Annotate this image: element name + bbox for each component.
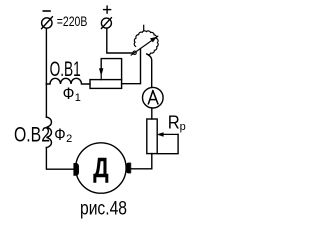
svg-text:=220В: =220В [57, 14, 88, 29]
field rheostat body [90, 80, 122, 89]
svg-text:2: 2 [66, 133, 72, 145]
wire: OB2 down and right to left brush [46, 148, 73, 170]
terminal XT2 (right, plus) [101, 6, 111, 28]
wire: junction down to OB2 coil [45, 84, 47, 117]
svg-text:Ф: Ф [63, 84, 75, 103]
svg-text:О.В1: О.В1 [50, 58, 81, 81]
wire: ammeter to Rp [151, 108, 153, 119]
starter arm arrowhead [150, 37, 156, 42]
inductor OB2 (series field winding, vertical) [46, 117, 51, 148]
inductor OB1 (shunt field winding, horizontal) [46, 78, 90, 84]
svg-text:Ф: Ф [54, 125, 65, 144]
ammeter label A [148, 91, 158, 104]
wire: plus terminal down and right to starter pivot [107, 28, 133, 53]
wire: Rp bottom down and left to right brush [131, 154, 152, 169]
starting rheostat (stud arc) [134, 31, 158, 55]
rheostat Rp body [147, 119, 157, 154]
field rheostat slider arrow (down onto body) [99, 69, 103, 76]
starter arc end to ammeter wire [147, 54, 152, 87]
svg-text:рис.48: рис.48 [80, 198, 127, 220]
wire: Rp slider loop down to body bottom corner [157, 134, 178, 153]
starter top stud lead [143, 25, 145, 30]
svg-text:О.В2: О.В2 [14, 124, 50, 147]
ammeter PA1 [143, 87, 164, 108]
terminal XT1 (left, minus) [42, 11, 53, 29]
svg-text:R: R [168, 113, 180, 133]
svg-text:Д: Д [94, 152, 109, 182]
wire: slider loop up and right to body right edge [101, 59, 121, 80]
starter arm (slider) [131, 36, 158, 55]
right brush [126, 163, 130, 173]
svg-text:р: р [180, 121, 186, 133]
left brush [74, 163, 79, 175]
starter pivot eye [133, 51, 136, 54]
wire: left terminal down to OB1 junction [45, 28, 47, 84]
motor armature circle [76, 143, 126, 193]
Rp slider arrow (points left into body) [162, 133, 178, 135]
svg-text:1: 1 [75, 92, 81, 104]
wire: rheostat output to starter tap [122, 49, 141, 84]
